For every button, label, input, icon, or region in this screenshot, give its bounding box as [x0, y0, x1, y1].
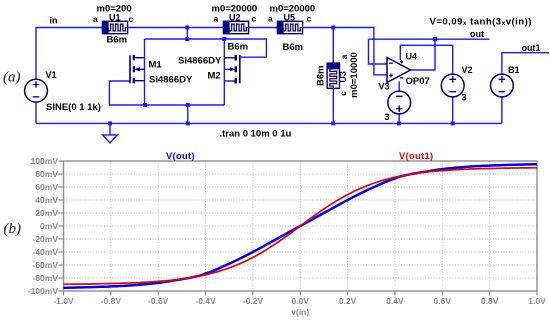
svg-text:out: out	[470, 29, 484, 39]
svg-text:(a): (a)	[3, 70, 21, 86]
svg-text:0.8V: 0.8V	[481, 296, 499, 306]
svg-text:U1: U1	[109, 13, 121, 23]
svg-text:M2: M2	[208, 71, 221, 82]
svg-text:.tran 0 10m 0 1u: .tran 0 10m 0 1u	[220, 129, 292, 140]
svg-text:V=0.09x tanh(3xv(in)): V=0.09x tanh(3xv(in))	[430, 17, 532, 28]
svg-text:c: c	[307, 14, 312, 24]
svg-text:-40mV: -40mV	[32, 247, 58, 257]
svg-text:B6m: B6m	[283, 42, 304, 53]
svg-text:a: a	[93, 14, 98, 24]
svg-text:a: a	[339, 54, 349, 59]
svg-text:0.4V: 0.4V	[386, 296, 404, 306]
svg-text:Si4866DY: Si4866DY	[149, 75, 193, 86]
svg-text:0.0V: 0.0V	[292, 296, 310, 306]
svg-text:V3: V3	[379, 82, 390, 92]
svg-text:V(out1): V(out1)	[399, 150, 433, 161]
svg-text:V1: V1	[46, 70, 57, 80]
svg-text:0.2V: 0.2V	[339, 296, 357, 306]
svg-text:c: c	[252, 14, 257, 24]
svg-text:OP07: OP07	[406, 76, 430, 87]
svg-text:V2: V2	[462, 65, 473, 75]
svg-text:B6m: B6m	[107, 35, 128, 46]
svg-text:out1: out1	[522, 43, 541, 53]
svg-text:0mV: 0mV	[40, 221, 58, 231]
svg-text:-80mV: -80mV	[32, 273, 58, 283]
svg-text:U4: U4	[406, 52, 418, 62]
svg-text:40mV: 40mV	[35, 195, 58, 205]
svg-text:-0.4V: -0.4V	[195, 296, 216, 306]
svg-text:B1: B1	[508, 65, 520, 75]
svg-text:20mV: 20mV	[35, 208, 58, 218]
svg-text:-0.6V: -0.6V	[148, 296, 169, 306]
svg-text:a: a	[214, 14, 219, 24]
svg-text:-60mV: -60mV	[32, 260, 58, 270]
svg-text:a: a	[268, 14, 273, 24]
svg-text:B6m: B6m	[315, 65, 326, 86]
svg-text:(b): (b)	[4, 221, 22, 237]
svg-text:Si4866DY: Si4866DY	[178, 55, 222, 66]
svg-text:0.6V: 0.6V	[434, 296, 452, 306]
svg-text:100mV: 100mV	[31, 156, 59, 166]
svg-text:U5: U5	[284, 13, 296, 23]
svg-text:B6m: B6m	[228, 42, 249, 53]
svg-text:1.0V: 1.0V	[528, 296, 546, 306]
svg-text:U2: U2	[229, 13, 241, 23]
svg-text:-0.8V: -0.8V	[101, 296, 122, 306]
svg-text:-100mV: -100mV	[28, 286, 59, 296]
svg-text:v(in): v(in)	[291, 307, 309, 317]
svg-text:60mV: 60mV	[35, 182, 58, 192]
svg-text:-20mV: -20mV	[32, 234, 58, 244]
svg-text:c: c	[338, 91, 348, 96]
svg-text:m0=10000: m0=10000	[349, 52, 360, 98]
svg-text:-1.0V: -1.0V	[53, 296, 74, 306]
svg-text:-0.2V: -0.2V	[243, 296, 264, 306]
svg-text:U3: U3	[338, 71, 348, 83]
svg-text:SINE(0 1 1k): SINE(0 1 1k)	[46, 102, 101, 113]
svg-text:M1: M1	[149, 60, 163, 71]
svg-text:80mV: 80mV	[35, 169, 58, 179]
svg-text:c: c	[129, 14, 134, 24]
svg-text:3: 3	[385, 112, 390, 122]
svg-text:V(out): V(out)	[166, 150, 195, 161]
svg-text:in: in	[50, 16, 58, 26]
svg-text:3: 3	[462, 93, 467, 103]
